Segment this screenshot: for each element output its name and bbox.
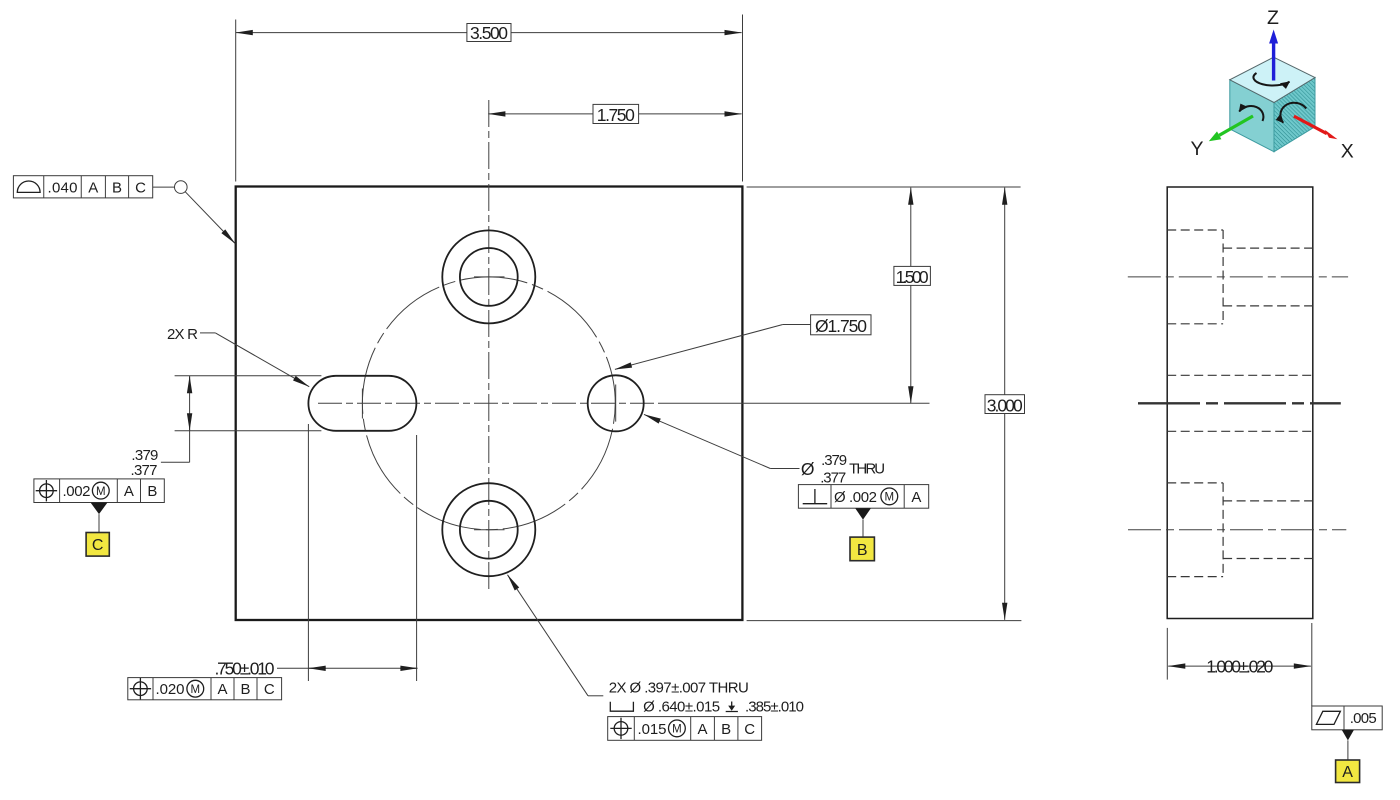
svg-text:M: M: [191, 684, 201, 696]
svg-text:A: A: [697, 721, 707, 738]
dimension 1.500: [747, 187, 1021, 403]
svg-text:.377: .377: [820, 469, 846, 486]
dimension .379/.377 (slot width): [131, 376, 322, 479]
side view centerline bottom hole: [1128, 529, 1346, 531]
svg-text:A: A: [88, 179, 98, 196]
svg-text:.385±.010: .385±.010: [745, 698, 804, 715]
svg-text:Y: Y: [1190, 138, 1203, 160]
side view middle hole hidden lines: [1167, 375, 1313, 431]
svg-text:Ø1.750: Ø1.750: [815, 316, 867, 336]
front view plate outline: [236, 187, 743, 621]
bottom counterbored hole: [442, 483, 535, 576]
svg-text:C: C: [135, 179, 146, 196]
svg-text:.002: .002: [849, 489, 877, 506]
datum C triangle: [91, 503, 108, 515]
svg-text:Ø: Ø: [801, 459, 815, 479]
rotation arrow on left face: [1239, 106, 1263, 121]
X axis arrow (red): [1294, 116, 1327, 134]
top counterbored hole: [442, 230, 535, 323]
svg-text:.005: .005: [1350, 710, 1377, 727]
dimension 3.500: [236, 15, 743, 182]
dimension 1.750: [488, 104, 741, 125]
svg-text:C: C: [264, 681, 275, 698]
leader from bottom hole to note: [508, 575, 604, 696]
flatness FCF .005 with datum A: [1312, 706, 1382, 783]
position FCF .015 M A B C (holes): [608, 717, 762, 741]
svg-text:A: A: [1342, 764, 1353, 781]
side view centerline top hole: [1128, 276, 1348, 278]
svg-text:.020: .020: [156, 681, 185, 698]
Y axis arrow (green): [1219, 116, 1253, 135]
Z axis arrow (blue): [1272, 43, 1275, 81]
svg-text:.040: .040: [48, 179, 78, 196]
boxed Ø1.750 with leader to bolt circle: [615, 315, 871, 370]
svg-text:A: A: [217, 681, 227, 698]
COORDINATE TRIAD CUBE: [1190, 7, 1353, 163]
horizontal centerline of plate: [318, 402, 662, 404]
svg-text:3.500: 3.500: [470, 23, 508, 43]
bolt circle Ø1.750: [339, 253, 639, 553]
note 2X Ø.397 THRU / cbore / depth: [609, 680, 804, 716]
cube right face (hatched): [1274, 78, 1315, 152]
side view bottom counterbore hidden lines: [1167, 483, 1313, 577]
side view outline: [1167, 187, 1313, 619]
svg-text:Ø: Ø: [834, 489, 846, 506]
2X R note with leader: [167, 326, 309, 387]
top hole crosshair: [474, 276, 505, 278]
slot obround: [308, 376, 416, 431]
datum A label: [1336, 760, 1360, 783]
svg-text:M: M: [885, 492, 895, 504]
svg-text:1.500: 1.500: [896, 267, 929, 287]
svg-text:.015: .015: [638, 721, 667, 738]
dimension .750±.010 (slot length): [215, 424, 418, 681]
datum C label: [86, 533, 109, 557]
position FCF .020 M A B C (slot): [128, 678, 282, 700]
datum B triangle: [855, 508, 871, 519]
svg-text:M: M: [672, 724, 682, 736]
position FCF .002 M A B with datum C: [34, 479, 164, 556]
svg-text:THRU: THRU: [849, 461, 885, 478]
rotation arrow around Z on top face: [1253, 73, 1289, 86]
svg-text:3.000: 3.000: [987, 395, 1023, 415]
vertical centerline of plate: [488, 100, 490, 589]
svg-text:Z: Z: [1267, 7, 1279, 29]
perpendicularity FCF Ø.002 M A with datum B: [798, 485, 928, 561]
cube top face: [1230, 57, 1315, 102]
svg-text:C: C: [744, 721, 755, 738]
side view main centerline (thick): [1138, 402, 1341, 404]
datum B label: [850, 537, 874, 561]
datum A triangle: [1342, 730, 1354, 741]
right hole Ø.379: [588, 375, 644, 431]
svg-text:1.000±.020: 1.000±.020: [1206, 657, 1273, 677]
svg-text:B: B: [721, 721, 731, 738]
slot center tick: [361, 389, 363, 419]
dimension 3.000: [747, 188, 1025, 621]
svg-text:A: A: [911, 489, 921, 506]
svg-text:X: X: [1341, 140, 1354, 162]
side view top counterbore hidden lines: [1167, 230, 1313, 324]
right hole crosshair: [615, 385, 617, 422]
dimension 1.000±.020: [1167, 623, 1312, 706]
svg-text:Ø .640±.015: Ø .640±.015: [643, 698, 720, 715]
surface profile FCF .040 A B C with leader: [13, 176, 235, 244]
svg-text:1.750: 1.750: [597, 105, 635, 125]
svg-text:.379: .379: [821, 452, 847, 469]
svg-text:B: B: [857, 542, 868, 559]
svg-text:.377: .377: [131, 462, 158, 479]
svg-text:2X R: 2X R: [167, 326, 198, 343]
svg-text:.002: .002: [63, 483, 91, 500]
svg-text:2X Ø .397±.007 THRU: 2X Ø .397±.007 THRU: [609, 680, 749, 697]
svg-text:B: B: [112, 179, 122, 196]
cube left face: [1230, 80, 1274, 152]
svg-text:B: B: [147, 483, 157, 500]
svg-text:B: B: [240, 681, 250, 698]
leader and note for right hole Ø.379/.377 THRU: [644, 414, 885, 486]
rotation arrow on right face: [1280, 103, 1306, 123]
svg-text:C: C: [92, 537, 104, 554]
svg-text:.750±.010: .750±.010: [215, 658, 275, 678]
svg-text:A: A: [124, 483, 134, 500]
svg-text:M: M: [96, 486, 106, 498]
bottom hole crosshair: [474, 529, 505, 531]
